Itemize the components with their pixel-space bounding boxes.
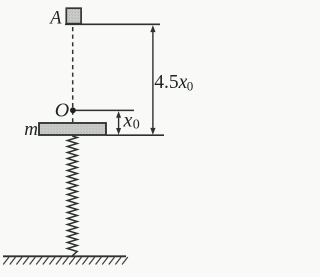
ground line	[3, 255, 126, 257]
equilibrium-level line from O	[76, 109, 135, 111]
dimension arrow 4.5x0	[150, 25, 155, 135]
svg-text:0: 0	[133, 118, 140, 133]
ground hatching	[3, 257, 128, 265]
svg-text:4.5x: 4.5x	[154, 72, 187, 93]
mass m block	[39, 123, 106, 135]
svg-text:m: m	[24, 119, 38, 140]
svg-text:O: O	[55, 100, 69, 122]
dimension arrow x0	[116, 111, 121, 135]
node O dot	[70, 107, 76, 113]
spring	[67, 136, 77, 256]
top release-level line	[65, 23, 160, 25]
block A	[66, 8, 81, 23]
mass-bottom reference line	[107, 134, 165, 136]
svg-text:0: 0	[187, 79, 194, 94]
dashed vertical guide line	[72, 27, 74, 122]
svg-text:x: x	[123, 110, 133, 132]
svg-text:A: A	[48, 9, 62, 29]
